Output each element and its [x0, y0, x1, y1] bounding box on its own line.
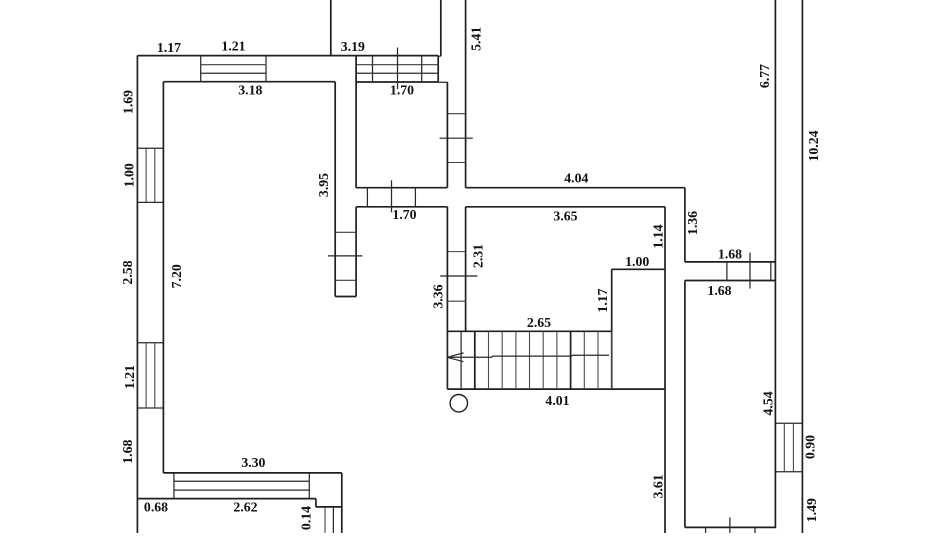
column circle	[450, 395, 467, 412]
right wall 10.24	[801, 0, 803, 533]
svg-text:7.20: 7.20	[169, 264, 184, 288]
door D2 1.70 interior window	[367, 180, 415, 212]
stair arrow	[447, 353, 463, 362]
window W9 bottom-right room	[706, 517, 755, 533]
svg-text:1.21: 1.21	[221, 39, 245, 54]
staircase	[447, 331, 665, 389]
svg-text:2.62: 2.62	[233, 500, 257, 515]
wall corner connector	[438, 55, 441, 57]
wall x664 long vertical	[664, 207, 666, 533]
svg-text:3.19: 3.19	[341, 39, 365, 54]
bottom wall outer	[137, 498, 316, 500]
wall x447 left face	[446, 82, 448, 188]
wall mid vertical right face lower	[355, 207, 357, 297]
svg-text:10.24: 10.24	[806, 130, 821, 161]
svg-text:1.70: 1.70	[392, 207, 416, 222]
svg-text:1.00: 1.00	[122, 163, 137, 187]
wall x685 lower segment	[684, 281, 686, 528]
wall top outer	[137, 55, 438, 57]
wall mid vertical right face	[355, 56, 357, 188]
stair direction line	[447, 355, 609, 357]
wall 4.04	[466, 187, 685, 189]
stairs room top wall	[466, 206, 665, 208]
svg-text:4.04: 4.04	[564, 171, 588, 186]
svg-text:3.30: 3.30	[241, 455, 265, 470]
wall band y207 bottom face left segment	[356, 206, 447, 208]
window W5 3.30 bottom	[174, 473, 309, 499]
window W1 1.00 left wall	[137, 148, 163, 202]
svg-text:2.65: 2.65	[527, 315, 551, 330]
wall 1.36 vertical	[684, 188, 686, 262]
wall band 1.68 bottom face	[685, 280, 776, 282]
svg-text:4.01: 4.01	[545, 393, 569, 408]
wall x466 upper segment (5.41)	[465, 0, 467, 188]
svg-text:1.00: 1.00	[625, 254, 649, 269]
window W7 1.68	[727, 253, 771, 289]
svg-text:3.61: 3.61	[650, 474, 665, 498]
upper room left wall	[330, 0, 332, 56]
wall x447 left face lower	[446, 207, 448, 389]
svg-text:3.18: 3.18	[238, 83, 262, 98]
svg-text:0.90: 0.90	[803, 435, 818, 459]
wall band 1.68 top face	[685, 261, 776, 263]
big room bottom inner wall	[163, 472, 341, 474]
bottom-right room bottom wall	[685, 526, 776, 528]
right wall 6.77	[774, 0, 776, 527]
wall ledge connector y82	[438, 81, 447, 83]
window W6 below step	[325, 507, 333, 533]
wall 1.00 step	[612, 268, 665, 270]
wall left inner	[162, 82, 164, 473]
svg-text:1.17: 1.17	[157, 40, 181, 55]
wall mid vertical bottom cap	[335, 296, 356, 298]
svg-text:2.31: 2.31	[471, 244, 486, 268]
svg-text:1.68: 1.68	[707, 283, 731, 298]
svg-text:1.70: 1.70	[390, 83, 414, 98]
window W8 0.90 right wall	[775, 423, 802, 472]
wall mid vertical left face (big room right)	[334, 82, 336, 297]
wall left outer	[136, 56, 138, 534]
window W2 1.21 left wall	[137, 343, 163, 408]
svg-text:1.36: 1.36	[685, 211, 700, 235]
step 0.14	[316, 473, 342, 533]
svg-text:1.49: 1.49	[804, 498, 819, 522]
svg-text:2.58: 2.58	[120, 260, 135, 284]
door D4 in x447 wall lower	[440, 252, 477, 302]
door D1 in mid wall	[328, 232, 362, 280]
svg-text:1.68: 1.68	[120, 440, 135, 464]
svg-text:4.54: 4.54	[761, 391, 776, 415]
svg-text:6.77: 6.77	[757, 64, 772, 88]
wall x466 stairs segment	[465, 207, 467, 331]
svg-text:1.68: 1.68	[718, 247, 742, 262]
wall band y187 top face left segment	[356, 187, 447, 189]
svg-text:3.65: 3.65	[553, 209, 577, 224]
svg-text:3.36: 3.36	[431, 284, 446, 308]
svg-text:1.17: 1.17	[595, 288, 610, 312]
wall 1.17 vertical	[611, 269, 613, 389]
svg-text:0.14: 0.14	[298, 506, 313, 530]
svg-text:1.69: 1.69	[121, 90, 136, 114]
svg-text:1.21: 1.21	[122, 365, 137, 389]
window W4 1.70 top (top-middle room)	[356, 48, 438, 90]
upper room right wall	[440, 0, 442, 56]
svg-text:3.95: 3.95	[316, 173, 331, 197]
window W3 1.21 top wall	[201, 56, 266, 82]
svg-text:1.14: 1.14	[651, 224, 666, 248]
wall top inner	[163, 81, 335, 83]
svg-text:5.41: 5.41	[469, 27, 484, 51]
svg-text:0.68: 0.68	[144, 500, 168, 515]
door D3 in x447 wall upper	[440, 114, 473, 163]
